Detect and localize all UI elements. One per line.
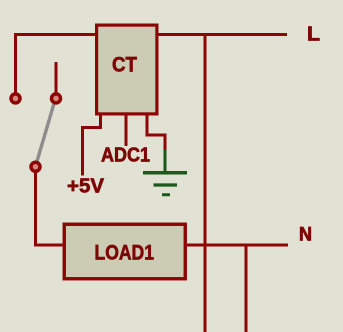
ground [143, 150, 187, 195]
svg-text:ADC1: ADC1 [101, 144, 150, 167]
wire: switch stub above pole B [55, 62, 58, 93]
switch SW1 pole B contact [52, 94, 61, 103]
wire: N rail horizontal from LOAD1 [187, 244, 288, 247]
pin 2 of CT to ADC1 terminal [125, 115, 128, 146]
wire: L rail vertical drop [204, 33, 207, 332]
switch SW1 lever [37, 104, 54, 161]
transformer block CT [97, 25, 157, 114]
pin 1 of CT to +5V [83, 115, 101, 176]
svg-text:LOAD1: LOAD1 [95, 242, 155, 265]
pin 3 of CT to ground [147, 115, 165, 152]
svg-text:L: L [307, 23, 320, 46]
switch SW1 pole A contact [11, 94, 20, 103]
svg-text:CT: CT [112, 53, 137, 77]
wire: left drop to switch pole A [14, 33, 17, 93]
svg-text:N: N [299, 225, 312, 246]
switch SW1 common contact [31, 162, 40, 171]
svg-text:+5V: +5V [67, 175, 104, 198]
wire: switch common down and into LOAD1 [36, 172, 63, 245]
wire: top L rail horizontal [14, 33, 287, 36]
wire: N rail vertical drop [245, 244, 248, 332]
load block LOAD1 [64, 224, 185, 279]
